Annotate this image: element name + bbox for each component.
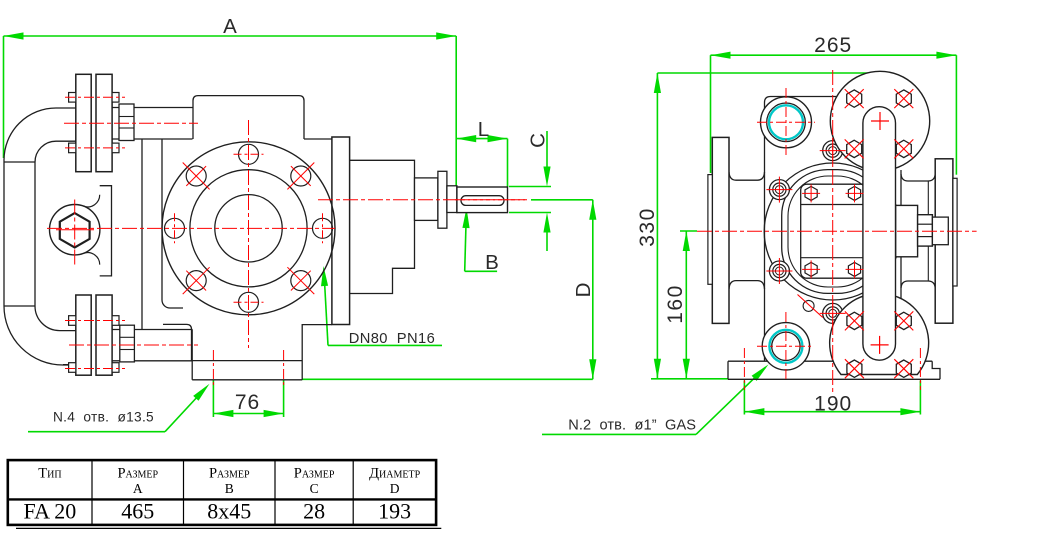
socket head screw 2 [769,261,789,281]
flange bolt hole centermarks [322,213,324,243]
elbow weld seam top [4,161,35,163]
flange bolt hole 6 [186,271,206,291]
cover hex screw 3 [805,262,817,276]
dimension 330 line with arrows [656,73,658,379]
socket head screw 3 [823,141,843,161]
dowel pin hole [803,300,814,311]
cover hex screw 1 [805,186,817,200]
svg-text:76: 76 [235,391,260,414]
svg-text:B: B [485,251,499,274]
svg-text:Размер: Размер [117,466,158,482]
right view body right edge [900,170,902,361]
bearing housing [350,160,415,293]
dimension D line with arrows and extension lines [531,199,593,201]
dimension table [8,460,436,525]
top flange nut 2 [896,90,911,107]
cover plate outer contour [782,170,884,294]
top flange nut 1 [847,90,862,107]
svg-text:C: C [527,133,550,148]
right port flange raised face [953,178,957,286]
pump body top block [193,96,304,139]
bottom flange nut 1 [847,312,862,329]
svg-text:160: 160 [664,284,687,324]
right port flange plate [935,159,953,323]
flange bolt hole 3 [239,144,259,164]
bottom flange nut 4 [896,360,911,377]
svg-text:N.4 отв. ø13.5: N.4 отв. ø13.5 [53,410,154,425]
socket head screw 1 [769,180,789,200]
flange vertical centerline [248,120,250,348]
bottom flange bolt lower [69,363,76,373]
gear housing bore circle [764,163,901,300]
plug vertical centerline [74,200,76,267]
front flange outer circle [162,142,335,315]
dimension C lines with arrows [509,186,551,188]
dimension 190 line with arrows [743,381,745,415]
bottom flange nut 2 [896,312,911,329]
svg-text:190: 190 [814,392,852,415]
bottom flange bolt upper [69,316,76,326]
right base bolt centerline right [919,348,921,390]
right base bolt centerline left [743,348,745,390]
svg-text:Диаметр: Диаметр [369,466,420,482]
right view base plate [728,361,940,379]
leader line N.4 holes [28,431,165,433]
dimension A line with arrows and extension lines [4,35,457,37]
U-pipe vertical capsule [863,107,896,360]
svg-text:B: B [225,481,234,496]
elbow top flange plate [76,74,91,171]
right view vertical centerline [832,70,834,392]
hex plug boss circle [49,205,99,255]
left port flange plate [712,137,729,323]
flange bolt hole 1 [313,218,333,238]
shaft end nut [918,215,933,246]
svg-text:265: 265 [814,34,852,57]
gear chamber rectangle [801,184,870,278]
shaft horizontal centerline [318,199,525,201]
pump bottom port flange plate [96,295,112,375]
bottom pipe stub with hex union [112,329,192,331]
top GAS port [761,97,812,148]
pump body left inner edge [162,139,183,308]
bottom flange nut 3 [847,360,862,377]
pump body base left edge [191,330,193,380]
flange bolt hole 4 [186,166,206,186]
front flange raised face circle [190,170,307,287]
pump body top shelf [304,138,332,140]
plug horizontal solid mark [56,229,94,231]
flange bolt hole 8 [291,271,311,291]
bottom flange bolt centerline upper [65,320,125,322]
bottom stub centerline [69,344,198,346]
leader line B keyway [465,270,497,272]
right port pipe stub [901,174,935,181]
top flange bolt lower [69,143,76,153]
shaft end washer block [932,217,948,245]
right view horizontal centerline [697,230,977,232]
top flange bolt upper [69,93,76,103]
elbow weld seam bottom [4,305,35,307]
socket screw center marks [766,189,792,191]
bearing end plate [438,171,447,228]
pump top port flange plate [96,74,112,171]
front flange bore circle [215,195,282,262]
shaft keyway centerline [455,199,530,201]
top flange bolt centerline lower [65,147,125,149]
top pipe flange circle [830,71,929,170]
flange bolt hole 5 [165,218,185,238]
svg-text:Размер: Размер [209,466,250,482]
pump body left outer edge [141,139,143,330]
pump body lower left shelf [163,324,192,360]
top GAS port centerlines [785,88,787,156]
svg-text:8x45: 8x45 [207,499,251,524]
bottom GAS port [762,323,809,370]
cover screw center marks [802,192,820,194]
svg-text:L: L [478,118,489,141]
bottom flange bolt centerline lower [65,368,125,370]
shaft keyway [461,196,504,206]
top suction pipe stub with hex union [112,107,192,109]
hex plug hexagon [60,213,90,247]
top flange nut 3 [847,140,862,157]
flange bolt hole 2 [291,166,311,186]
leader line N.2 GAS ports [542,433,696,435]
elbow bottom flange plate [76,295,91,375]
svg-text:193: 193 [378,499,411,524]
dimension 76 line with arrows [212,381,214,418]
svg-text:D: D [572,283,595,298]
right view body outline [765,97,881,362]
svg-text:28: 28 [303,499,325,524]
bottom flange center mark [871,344,889,346]
dimension L line with arrows [456,138,507,140]
svg-text:Тип: Тип [38,466,61,482]
leader line DN80 PN16 [328,344,442,346]
base bolt centerline left [212,350,214,385]
dimension 265 line with arrows [711,54,957,56]
base bolt centerline right [283,350,285,385]
svg-text:A: A [223,15,237,38]
cover hex screw 4 [848,262,860,276]
left port flange raised face [708,175,712,285]
return elbow U-pipe inner contour [35,141,76,330]
cover hex screw 2 [848,186,860,200]
shaft step [447,186,457,213]
flange horizontal centerline [47,227,335,229]
bearing collar [415,178,438,221]
base plate [192,325,332,380]
hex plug boss fillets [84,195,100,207]
svg-text:465: 465 [121,499,154,524]
dimension 160 line with arrows [685,231,687,379]
gear chamber inner lines [801,204,870,206]
return elbow U-pipe outer contour [4,108,76,365]
svg-text:D: D [390,481,400,496]
left port pipe stub [729,172,765,180]
flange bolt hole 7 [239,292,259,312]
svg-text:C: C [310,481,319,496]
top flange center mark [871,120,889,122]
top flange nut 4 [896,140,911,157]
svg-text:330: 330 [636,207,659,247]
svg-text:DN80 PN16: DN80 PN16 [349,331,435,347]
svg-text:Размер: Размер [294,466,335,482]
bottom GAS port centerlines [785,312,787,381]
socket head screw 4 [823,303,843,323]
flange nut cross marks [845,89,864,108]
shaft [457,187,508,213]
dowel pin mark [798,295,823,318]
top stub centerline [64,122,198,124]
top flange bolt centerline upper [65,96,125,98]
svg-text:A: A [133,481,143,496]
bottom pipe flange circle [830,293,929,374]
shaft end block [896,205,918,256]
cover plate inner contour [788,176,877,287]
svg-text:N.2 отв. ø1” GAS: N.2 отв. ø1” GAS [568,418,696,434]
hex plug bracket plate [100,186,112,276]
front flange mounting plate [332,137,350,325]
svg-text:FA 20: FA 20 [24,499,77,524]
